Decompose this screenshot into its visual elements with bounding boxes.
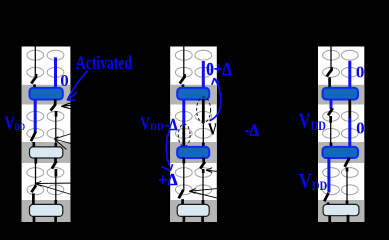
svg-text:0+Δ: 0+Δ — [206, 59, 232, 79]
annotation arrow Activated -> WL1 — [67, 71, 87, 100]
svg-text:DD: DD — [311, 118, 326, 133]
switch M23L (open, into WL3) — [179, 190, 184, 206]
wire boosted channel C22 left lower (thick black) — [182, 126, 185, 148]
wire stub into WL3 right — [202, 200, 205, 205]
wire cell C22 right lower — [202, 123, 204, 143]
wire stub below WL2 left — [34, 158, 37, 164]
wordline WL1 S2 (activated) — [177, 88, 209, 100]
switch M21L (open, into WL1) — [180, 74, 185, 89]
wire source stub right below WL3 S2 — [201, 216, 204, 227]
svg-text:-Δ: -Δ — [245, 121, 260, 140]
wire left channel cell C21 — [183, 47, 185, 75]
svg-text:DD: DD — [15, 122, 25, 133]
leader arrow (black) at WL1 right corner — [61, 103, 70, 109]
wire bitline blue cell C21 right — [202, 61, 205, 89]
wordline WL3 S2 (idle) — [177, 204, 209, 216]
wire source stub left below WL3 S2 — [183, 216, 186, 225]
svg-text:Activated: Activated — [76, 53, 133, 74]
wordline WL2 S1 (idle) — [30, 147, 63, 158]
wire cell C23 left — [183, 163, 185, 190]
cell C31 charge-trap ellipses — [323, 50, 359, 77]
switch M13R (open, from WL2) — [52, 158, 57, 177]
wire stub into WL3 right — [54, 200, 57, 205]
switch M33L (open, into WL3) — [324, 193, 328, 208]
switch M12L (open, into WL2) — [31, 131, 36, 148]
cell C33 charge-trap ellipses — [323, 168, 359, 195]
wire blue stub below WL1 left — [330, 99, 333, 109]
wire cell C13 right lower — [55, 176, 57, 201]
wire blue cell C33 left — [327, 158, 330, 193]
leader fan at switch M23L — [189, 187, 232, 200]
wire cell C33 right lower — [346, 171, 348, 201]
wordline WL3 S1 (idle) — [30, 204, 63, 216]
string S3 body — [318, 47, 364, 223]
wire stub into WL2 left — [330, 143, 333, 149]
switch M33R (open, from WL2) — [345, 158, 349, 172]
wire source stub right below WL3 — [54, 216, 57, 227]
wire V_DD blue cell C12 left — [34, 99, 37, 132]
dashed highlight oval C22 right — [197, 97, 211, 123]
svg-text:0: 0 — [356, 119, 365, 138]
wire cell C13 left — [35, 163, 37, 186]
svg-text:V: V — [140, 113, 150, 133]
wire source stub right below WL3 S3 — [347, 215, 350, 225]
leader arrow at switch M23R — [206, 168, 232, 173]
string S1 body — [22, 47, 71, 223]
wire stub into WL2 right — [54, 143, 57, 148]
cell C21 charge-trap ellipses — [175, 50, 211, 77]
switch M12R (open, from WL1) — [51, 99, 57, 117]
switch M32L (open, from WL1) — [328, 108, 333, 123]
wire cell C23 right lower — [202, 173, 204, 201]
wire boosted channel C22 right upper (thick black) — [202, 99, 205, 123]
svg-text:DD: DD — [150, 122, 164, 133]
annotation curved arrow V_DD-delta -> +delta — [162, 129, 173, 171]
wire stub into WL3 right — [346, 201, 349, 206]
wire cell C32 left lower — [330, 123, 332, 144]
leader arrow at node cell C13 left — [35, 181, 78, 196]
svg-text:-Δ: -Δ — [165, 115, 178, 134]
cell C23 charge-trap ellipses — [175, 168, 211, 195]
svg-text:V: V — [4, 113, 15, 134]
switch M13L (open, into WL3) — [31, 185, 36, 205]
label V (channel voltage) — [209, 124, 217, 134]
svg-text:V: V — [299, 109, 311, 133]
wire stub into WL2 right — [202, 143, 205, 148]
wordline WL3 S3 (idle) — [323, 204, 359, 215]
wire left channel cell C31 — [330, 47, 332, 68]
svg-text:DD: DD — [312, 178, 328, 193]
svg-text:0: 0 — [60, 71, 69, 90]
switch M11L (open, into WL1) — [31, 74, 36, 89]
cell C12 charge-trap ellipses — [27, 111, 64, 138]
cell C22 charge-trap ellipses — [175, 111, 211, 138]
string S2 body — [170, 47, 217, 223]
wire source stub left below WL3 — [33, 216, 36, 225]
wordline WL2 S3 (activated) — [323, 147, 359, 158]
svg-text:V: V — [299, 169, 312, 193]
leader fan at node cell C12 right — [54, 132, 78, 150]
svg-text:0: 0 — [356, 63, 365, 82]
cell C32 charge-trap ellipses — [323, 111, 359, 138]
wire blue cell C32 right lower — [348, 118, 351, 148]
wire source stub left below WL3 S3 — [328, 216, 331, 224]
wordline WL2 S2 (activated) — [177, 147, 209, 158]
wire boosted channel C32 right upper (thick black) — [348, 99, 351, 118]
switch M31L (open, into WL1) — [327, 67, 332, 89]
wire bitline blue cell C31 right — [348, 61, 351, 89]
cell C13 charge-trap ellipses — [27, 168, 64, 195]
switch M23R (open, from WL2) — [200, 158, 205, 174]
wire left channel cell C11 — [34, 47, 36, 75]
wire cell C12 right lower — [55, 115, 57, 144]
dashed highlight oval C22 left — [178, 124, 190, 147]
wordline WL1 S3 (activated) — [323, 88, 359, 100]
cell C11 charge-trap ellipses — [27, 50, 64, 77]
wire bitline blue cell C11 right — [54, 57, 57, 89]
svg-text:+Δ: +Δ — [158, 170, 178, 189]
wire blue cell C22 left upper — [182, 99, 185, 126]
wordline WL1 S1 (activated) — [30, 88, 63, 100]
annotation curved arrow (charge up) right of WL1 S2 — [210, 78, 221, 121]
wire stub below WL2 left — [182, 158, 185, 164]
